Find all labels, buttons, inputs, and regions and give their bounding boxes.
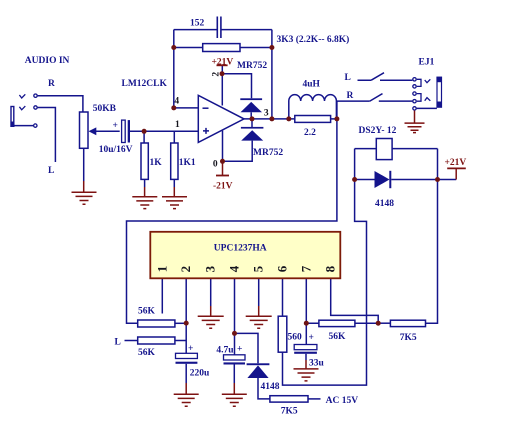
power bar +21V top [217,64,228,66]
ground 220u [174,383,199,406]
power stem -21V [222,161,224,175]
svg-text:-21V: -21V [213,182,233,192]
wire 1K to ground [144,179,146,187]
connector EJ1 circles [413,78,416,111]
label IC pin numbers [154,265,337,272]
capacitor C3 220u [176,353,198,383]
jack contact tick R [19,94,25,98]
svg-text:+: + [188,344,193,354]
wire R branch up [337,101,370,119]
ground pot [72,181,97,204]
IC pin5 line [258,278,260,306]
svg-text:10u/16V: 10u/16V [99,145,133,155]
wire 7K5 left [378,322,390,324]
grounds and dots layer [72,111,425,407]
resistor R6 56K bottom [138,337,175,344]
node output 3 [250,116,255,121]
wire 1K drop [143,131,145,143]
resistor R1 1K [141,143,148,179]
IC pin2 line [185,278,187,353]
ground 1K [132,187,157,209]
svg-text:2: 2 [178,266,193,273]
node 56K 7K5 [376,321,381,326]
wire R input [38,96,83,112]
node feedback right [269,45,274,50]
svg-text:33u: 33u [309,359,325,369]
svg-text:56K: 56K [138,307,156,317]
wire 1K1 to ground [173,179,175,187]
power stem +21V right [455,169,457,180]
svg-text:1K1: 1K1 [179,158,196,168]
wire feedback top right [221,29,272,31]
op-amp U1 LM12CLK [198,95,244,142]
capacitor C2 152 [217,17,221,39]
IC pin8 line [331,278,379,323]
svg-text:152: 152 [190,19,205,29]
svg-text:MR752: MR752 [237,61,267,71]
resistor R7 7K5 bottom [270,396,308,402]
ground pin3 [198,306,224,328]
node network right [334,116,339,121]
jack contact tick L [19,106,25,110]
terminal circle R [34,94,37,97]
svg-text:50KB: 50KB [93,104,117,114]
svg-text:AUDIO IN: AUDIO IN [25,56,70,66]
svg-text:1K: 1K [150,158,163,168]
inductor L1 4uH [289,95,337,119]
capacitor C4 4.7u [224,355,246,383]
diode D4 4148 bottom [247,363,270,399]
power bar +21V right [447,167,466,169]
node network left [286,116,291,121]
svg-text:3: 3 [203,265,218,272]
node relay left [352,177,357,182]
wire L input [38,108,56,163]
svg-text:+: + [237,345,242,355]
svg-text:3: 3 [264,109,269,119]
wire cap to opamp plus input [130,130,198,132]
terminal circle sleeve [34,124,37,127]
resistor R4 2.2 [295,116,331,123]
ground 1K1 [162,187,187,209]
wire diode row [355,179,457,181]
node minus input [171,105,176,110]
wire 1K1 drop [173,131,175,143]
resistor R10 7K5 right [390,320,425,326]
node pin0 [220,159,225,164]
relay contact L [358,73,413,81]
diode D1 MR752 top [240,98,262,119]
wire pot to ground [83,148,85,181]
relay coil loop wires [283,149,438,386]
wire 56K right row [306,322,378,324]
svg-text:4: 4 [227,265,242,272]
svg-text:R: R [347,91,354,101]
svg-text:1: 1 [175,120,180,130]
svg-text:56K: 56K [138,348,156,358]
ground pin5 [246,306,272,328]
svg-text:4uH: 4uH [303,80,321,90]
IC pin6 line [282,278,284,316]
wire feedback top left [174,29,217,31]
svg-text:0: 0 [213,160,218,170]
jack tick top [425,79,431,82]
jack switch bracket top [417,79,421,86]
wiper arrow [89,127,120,135]
svg-text:2: 2 [212,72,222,77]
svg-text:LM12CLK: LM12CLK [122,79,168,89]
svg-text:UPC1237HA: UPC1237HA [214,244,267,254]
jack body EJ1 [437,77,442,108]
wire pin0 [222,131,224,162]
potentiometer RP 50KB [80,112,89,148]
relay contact R [370,94,413,102]
svg-text:5: 5 [251,265,266,272]
svg-text:7K5: 7K5 [281,407,298,417]
wire pin2 supply [222,65,251,105]
svg-text:MR752: MR752 [253,148,283,158]
svg-text:8: 8 [323,265,338,272]
ground 33u [294,360,319,381]
svg-text:AC 15V: AC 15V [326,396,359,406]
capacitor C5 33u [294,345,317,361]
wire resistor row right [240,47,272,49]
power bar -21V [216,175,229,177]
node plus input [142,129,147,134]
wire minus input [174,107,199,109]
svg-text:R: R [48,79,55,89]
jack switch bracket bottom [417,94,421,102]
svg-text:56K: 56K [329,332,347,342]
node feedback left [171,45,176,50]
svg-text:+: + [309,333,314,343]
node feedback tap [269,116,274,121]
svg-text:EJ1: EJ1 [419,58,435,68]
IC pin7 line [305,278,307,344]
IC pin4 line [234,278,236,355]
wire 56K top to pin2 [175,322,186,324]
IC U2 UPC1237HA body [150,232,340,278]
svg-text:3K3 (2.2K-- 6.8K): 3K3 (2.2K-- 6.8K) [277,34,350,45]
wire feedback left vertical [173,30,175,108]
wire pin4 branch to diode [235,333,259,363]
wire opamp output [244,118,337,120]
svg-text:2.2: 2.2 [304,128,316,138]
resistor R5 56K top [138,320,175,327]
IC pin1 stub [161,278,163,313]
svg-text:4148: 4148 [375,199,394,209]
capacitor C-in 10u/16V [122,120,130,142]
svg-text:7K5: 7K5 [400,333,417,343]
svg-text:220u: 220u [190,368,210,378]
svg-text:560: 560 [288,333,303,343]
svg-text:4148: 4148 [261,382,280,392]
wire sleeve to jack body [417,107,437,109]
node pin4 [232,331,237,336]
svg-text:4.7u: 4.7u [216,345,234,355]
node 56K pin2 [184,321,189,326]
jack tick bottom [425,98,431,101]
wire to AC [308,398,321,400]
relay coil DS2Y-12 [376,139,392,160]
terminal circle L [34,106,37,109]
wire L channel stub [125,340,138,342]
wire output down left run [127,119,337,323]
svg-text:+21V: +21V [445,158,467,168]
IC pin3 line [210,278,212,306]
node relay right [435,177,440,182]
svg-text:7: 7 [298,265,313,272]
svg-text:6: 6 [275,265,290,272]
svg-text:L: L [48,166,54,176]
svg-text:+21V: +21V [212,58,234,68]
svg-text:+: + [113,121,118,131]
svg-text:DS2Y- 12: DS2Y- 12 [359,126,397,136]
resistor R3 3K3 [203,44,240,52]
resistor R2 1K1 [171,143,178,179]
svg-text:4: 4 [174,97,179,107]
node pin2 supply [220,71,225,76]
audio input jack J-IN [11,107,14,127]
wire feedback right vertical [271,30,273,119]
svg-text:1: 1 [154,266,169,273]
wire 56K bottom to pin2 [175,340,186,342]
ground EJ1 [405,111,425,133]
node pin7 [304,321,309,326]
resistor R8 560 [278,316,287,352]
diode D3 4148 [375,171,392,188]
svg-text:L: L [115,337,121,347]
resistor R9 56K right [319,320,355,326]
svg-text:L: L [345,73,351,83]
wire sleeve to jack [14,125,33,127]
wire resistor row left [174,47,203,49]
ground 4.7u [222,383,247,406]
diode D2 MR752 bottom [223,119,264,161]
